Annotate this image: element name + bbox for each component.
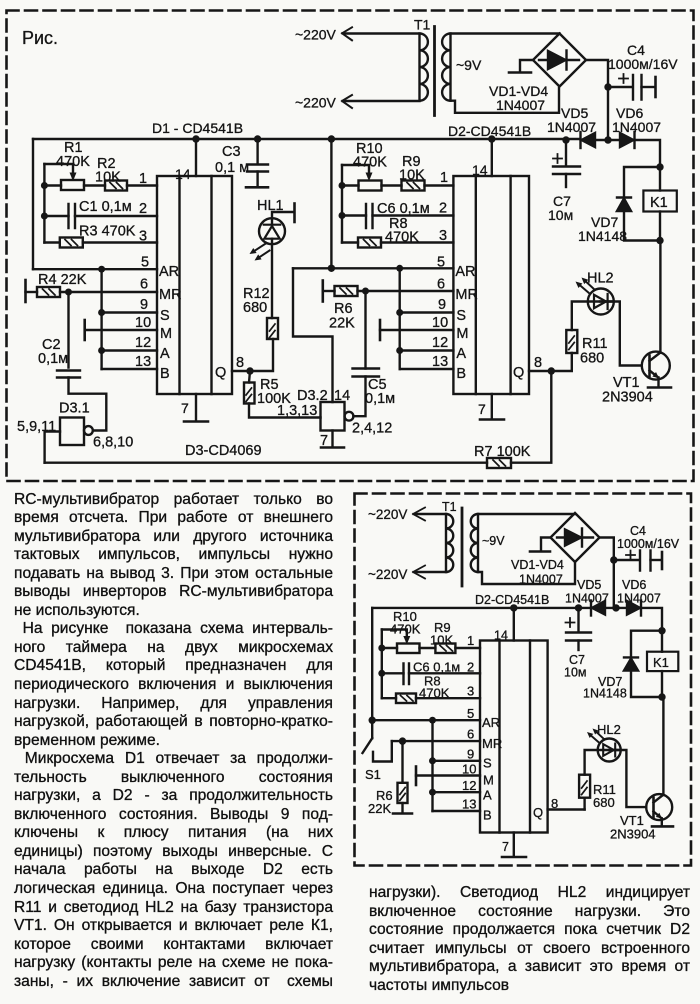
R7 hatch: [493, 460, 506, 466]
sideways ground bar pin10 (fig2): [415, 767, 418, 786]
wire left supply bus: [32, 139, 34, 269]
LED HL2 arrows (fig2): [592, 736, 600, 743]
diode VD6 (fig2): [627, 601, 640, 615]
resistor R9 body (fig2): [435, 644, 455, 654]
svg-text:~9V: ~9V: [456, 57, 482, 73]
node junction C7 (fig2): [575, 604, 582, 611]
svg-text:3: 3: [139, 229, 147, 245]
wire 220V top to primary: [344, 32, 420, 34]
capacitor C7: [553, 167, 580, 175]
wire pin10 M line: [85, 329, 157, 331]
node junction S1 top (fig2): [369, 717, 376, 724]
svg-text:M: M: [483, 773, 494, 788]
wire bus to R10 (fig2): [382, 647, 397, 649]
wire R5 to D3.2 input: [249, 404, 321, 418]
wire C4 to common (fig2): [651, 559, 662, 561]
svg-text:12: 12: [432, 335, 448, 351]
svg-text:A: A: [160, 346, 170, 362]
capacitor C2: [57, 371, 80, 378]
capacitor C5: [353, 369, 380, 377]
wire 220V bottom to primary (fig2): [415, 571, 446, 573]
svg-text:10м: 10м: [564, 666, 587, 680]
wire select bus D2: [399, 268, 401, 369]
wire bridge plus output (fig2): [600, 538, 614, 608]
capacitor C3: [247, 165, 268, 172]
svg-text:0,1м: 0,1м: [38, 351, 68, 367]
node junction R10 left (fig2): [378, 645, 385, 652]
wire D3 supply drop: [330, 139, 332, 268]
svg-text:8: 8: [236, 355, 244, 371]
inverter D3.1 box: [60, 418, 84, 446]
wire R3 to pin3: [83, 241, 157, 243]
sideways ground bar pin10 D1: [83, 320, 86, 340]
wire K1 bottom (fig2): [661, 671, 663, 697]
VT1 emitter (fig2): [654, 812, 662, 827]
node junction R1 left: [41, 182, 48, 189]
ground bar D2: [480, 418, 504, 421]
svg-text:C1 0,1м: C1 0,1м: [79, 199, 132, 215]
wire Q pin8 to R11 (fig2): [548, 808, 585, 810]
R5 hatch: [246, 388, 252, 402]
wire R10 wiper feed: [342, 165, 369, 177]
wire D3.2 output to C5: [353, 377, 365, 417]
LED HL1 diode: [264, 225, 280, 239]
IC D1 inner columns: [180, 176, 212, 394]
wire R6 top (fig2): [401, 741, 403, 783]
node junction C7: [562, 136, 569, 143]
node junction pin12: [98, 347, 105, 354]
svg-text:1N4007: 1N4007: [612, 119, 661, 135]
wire Q to R5: [249, 371, 250, 383]
svg-text:14: 14: [494, 629, 508, 643]
ground bar D1: [184, 420, 208, 423]
wire C6 to pin2 (fig2): [409, 672, 480, 674]
capacitor C4 (fig2): [640, 551, 651, 571]
inverter D3.1 bubble: [84, 426, 93, 435]
resistor R8 body (fig2): [396, 694, 416, 704]
VT1 emitter: [650, 371, 659, 388]
transformer T1 secondary winding (fig2): [471, 514, 478, 572]
svg-text:AR: AR: [455, 264, 475, 280]
bridge rectifier VD1-VD4 diamond: [533, 34, 586, 87]
svg-text:1: 1: [139, 171, 147, 187]
wire K1 bottom: [659, 212, 661, 241]
svg-text:10: 10: [135, 315, 151, 331]
node junction Q D1: [246, 367, 253, 374]
svg-text:Q: Q: [513, 365, 524, 381]
VT1 base bar: [648, 356, 651, 377]
transformer T1 core (fig2): [461, 508, 464, 586]
wire VD7 branch (fig2): [631, 631, 662, 657]
svg-text:7: 7: [502, 840, 509, 854]
svg-text:10K: 10K: [95, 170, 121, 186]
wire pin12 A line (fig2): [433, 791, 481, 793]
wire pin13 B line (fig2): [433, 810, 481, 812]
svg-text:6,8,10: 6,8,10: [93, 435, 133, 451]
resistor R4 body: [37, 287, 60, 297]
resistor R11 body: [566, 330, 577, 353]
wire C7 bottom stub: [565, 174, 567, 187]
svg-text:13: 13: [462, 797, 476, 812]
svg-text:12: 12: [135, 335, 151, 351]
wire Q pin8 out D2: [529, 370, 551, 372]
node junction C4 (fig2): [610, 556, 617, 563]
op-amp D2 IC box: [453, 176, 529, 394]
svg-text:2,4,12: 2,4,12: [352, 421, 392, 437]
potentiometer R10 body (fig2): [397, 644, 420, 654]
wire to C4 (fig2): [614, 559, 639, 561]
wire bus to R1: [44, 184, 61, 186]
wire pin12 A line D2: [400, 349, 454, 351]
node junction Q D2: [548, 367, 555, 374]
ground bar D3.2: [321, 446, 344, 449]
R3 hatch: [65, 240, 78, 246]
wire 220V top to primary (fig2): [415, 513, 446, 515]
main supply rail (fig2): [372, 607, 591, 609]
wire R12 to Q node: [250, 339, 273, 371]
LED HL2 arrows: [580, 286, 589, 294]
svg-text:10: 10: [462, 762, 476, 777]
wiper arrowhead R10 (fig2): [403, 636, 410, 644]
transistor VT1 circle: [642, 352, 670, 380]
svg-text:10K: 10K: [430, 633, 453, 648]
op-amp D2 IC box (fig2): [480, 641, 548, 833]
wire HL1 top to common: [272, 212, 294, 224]
wire secondary bottom to bridge: [451, 88, 560, 113]
svg-text:9: 9: [140, 297, 148, 313]
diode VD5 (fig2): [592, 601, 605, 615]
svg-text:14: 14: [175, 166, 191, 182]
node junction relay bottom: [656, 237, 663, 244]
figure border (fig 1): [7, 11, 694, 482]
diode VD5: [582, 133, 596, 147]
svg-text:B: B: [456, 366, 466, 382]
op-amp D1 IC box: [157, 176, 232, 394]
wire C4 to common: [642, 86, 655, 88]
svg-text:1N4007: 1N4007: [496, 97, 545, 113]
svg-text:AR: AR: [482, 715, 500, 730]
svg-text:3: 3: [439, 228, 447, 244]
R2 hatch: [110, 183, 123, 189]
svg-text:0,1м: 0,1м: [365, 391, 395, 407]
wire relay branch down: [659, 167, 661, 191]
wire pin12 A line: [102, 349, 157, 351]
relay K1 box: [643, 191, 676, 212]
wire R1 wiper feed: [44, 164, 73, 177]
wire bottom feedback line: [45, 462, 487, 464]
resistor R11 body (fig2): [579, 775, 590, 798]
svg-text:~220V: ~220V: [295, 27, 337, 43]
LED HL2 circle: [588, 289, 614, 315]
sideways ground bar pin10 D2: [379, 320, 382, 340]
wire bar to R4: [26, 291, 38, 293]
svg-text:1000м/16V: 1000м/16V: [617, 537, 680, 551]
wire pin14 D1: [195, 139, 197, 176]
wire R8 to pin3 (fig2): [416, 697, 480, 699]
wire pin13 B line: [102, 368, 157, 370]
svg-text:470K: 470K: [385, 230, 419, 246]
svg-text:1N4148: 1N4148: [583, 687, 627, 701]
relay K1 box (fig2): [647, 652, 678, 671]
wire C5 top to R6 junction: [364, 291, 366, 369]
wire C3 top: [256, 139, 258, 164]
svg-text:1N4007: 1N4007: [565, 592, 609, 606]
svg-text:D3.2: D3.2: [297, 388, 328, 404]
svg-text:7: 7: [181, 400, 189, 416]
wire 220V top arrow (fig2): [413, 508, 425, 521]
svg-text:AR: AR: [159, 264, 179, 280]
node junction C5-R6: [362, 288, 369, 295]
wire relay branch (fig2): [661, 631, 663, 652]
wire VD7 bottom: [624, 211, 660, 241]
capacitor C4: [633, 75, 642, 100]
wire C1 to pin2: [75, 215, 157, 217]
svg-text:VD5: VD5: [577, 578, 601, 592]
wire R1 to R2: [84, 184, 105, 186]
R9 hatch: [407, 183, 420, 189]
wire pin9 S line (fig2): [433, 760, 481, 762]
svg-text:680: 680: [243, 300, 267, 316]
node junction pin5 bus: [98, 266, 105, 273]
resistor R9 body: [402, 181, 425, 191]
wire 220V bottom to primary: [344, 100, 420, 102]
wire C7 top (fig2): [577, 608, 579, 632]
R4 hatch: [43, 289, 56, 295]
svg-text:~220V: ~220V: [368, 567, 407, 582]
svg-text:~220V: ~220V: [368, 507, 407, 522]
svg-text:680: 680: [593, 795, 615, 810]
wire R11 to Q node D2: [551, 353, 572, 371]
VT1 emitter arrowhead: [652, 372, 659, 378]
wiper arrowhead R1: [70, 173, 77, 182]
svg-text:6: 6: [467, 727, 474, 742]
node junction relay bottom (fig2): [658, 693, 665, 700]
wire bus corner to R8: [342, 241, 358, 243]
wire pin10 M line (fig2): [416, 774, 480, 776]
wire R11 bottom (fig2): [583, 798, 585, 810]
wire pin5 AR line (fig2): [372, 719, 480, 721]
wire R7 to Q D2: [511, 371, 551, 463]
node junction pin14 rail (fig2): [510, 604, 517, 611]
ground bar VT1 (fig2): [652, 825, 673, 828]
svg-text:D3-CD4069: D3-CD4069: [185, 443, 262, 459]
wire 220V top arrow: [342, 27, 352, 40]
node junction C6 (fig2): [378, 670, 385, 677]
node junction pin12 (fig2): [429, 789, 436, 796]
svg-text:10K: 10K: [399, 168, 425, 184]
wire R9 to pin1 (fig2): [455, 647, 480, 649]
svg-text:S: S: [456, 308, 466, 324]
wire C3 bottom: [256, 172, 258, 187]
node junction R10 left: [339, 182, 346, 189]
svg-text:MR: MR: [159, 287, 182, 303]
svg-text:1,3,13: 1,3,13: [277, 403, 317, 419]
node junction pin5 bus D2: [396, 265, 403, 272]
bridge rectifier VD1-VD4 diamond (fig2): [551, 513, 600, 562]
svg-text:C3: C3: [222, 144, 241, 160]
wire bus corner to R8 (fig2): [382, 697, 396, 699]
node junction pin9 D2: [396, 309, 403, 316]
node junction relay top (fig2): [658, 627, 665, 634]
wire VD7 branch top: [624, 167, 660, 197]
wire zigzag to D3.2 pin14: [293, 268, 333, 402]
svg-text:12: 12: [462, 778, 476, 793]
svg-text:1000м/16V: 1000м/16V: [608, 56, 678, 72]
ground bar D2 (fig2): [502, 856, 526, 859]
R11 hatch (fig2): [582, 781, 587, 795]
wire to C4: [608, 86, 632, 88]
ground bar at bridge (fig2): [530, 550, 550, 553]
wire 220V bottom arrow: [342, 95, 352, 108]
label plus C4 (fig2): [626, 551, 635, 560]
svg-text:13: 13: [135, 354, 151, 370]
wire bus to C1: [44, 215, 68, 217]
sideways ground bar HL1: [293, 204, 296, 223]
wire R2 to pin1: [127, 184, 157, 186]
VT1 collector (fig2): [654, 697, 664, 803]
svg-text:8: 8: [534, 355, 542, 371]
svg-text:9: 9: [467, 747, 474, 762]
wire VD6 to relay rail (fig2): [641, 608, 662, 631]
svg-text:K1: K1: [650, 195, 668, 211]
wire pin7 ground (fig2): [513, 833, 515, 857]
bridge inner diode: [539, 51, 579, 70]
wire HL2 left to R11: [572, 302, 614, 331]
node junction pin14 D2 rail: [488, 135, 495, 142]
wire pin6 MR line (fig2): [392, 740, 480, 742]
wire bus to C6: [342, 214, 366, 216]
resistor R3 body: [60, 238, 83, 248]
label plus C7: [553, 154, 562, 163]
ground bar at bridge: [509, 71, 531, 74]
IC D2 inner columns (fig2): [500, 641, 531, 833]
svg-text:1: 1: [467, 633, 474, 648]
svg-text:C4: C4: [630, 524, 646, 538]
wire pin10 M line D2: [380, 329, 453, 331]
inverter D3.2 bubble: [345, 412, 354, 421]
wire Q pin8 out: [232, 370, 250, 372]
svg-text:680: 680: [580, 351, 604, 367]
resistor R5 body: [244, 383, 255, 404]
wire R4 to pin6: [60, 291, 157, 293]
svg-text:K1: K1: [653, 655, 669, 670]
svg-text:3: 3: [467, 684, 474, 699]
wire C7 bottom stub (fig2): [577, 641, 579, 651]
svg-text:6: 6: [140, 277, 148, 293]
wire VD7 bottom (fig2): [631, 671, 662, 698]
svg-text:Q: Q: [533, 805, 543, 820]
wire pin14 (fig2): [513, 608, 515, 641]
svg-text:Q: Q: [215, 365, 226, 381]
node junction C1 left: [41, 213, 48, 220]
ground bar R6 (fig2): [393, 812, 412, 815]
R9 hatch (fig2): [440, 646, 453, 652]
svg-text:~9V: ~9V: [482, 534, 505, 548]
transformer T1 primary winding: [420, 34, 428, 101]
node junction pin9: [98, 309, 105, 316]
svg-text:M: M: [456, 326, 468, 342]
bridge minus stub (fig2): [541, 538, 551, 551]
figure border (fig 2): [355, 494, 692, 866]
svg-text:5: 5: [141, 255, 149, 271]
LED HL1 circle: [259, 218, 285, 244]
wire bridge plus output: [586, 60, 608, 139]
wire secondary top to bridge (fig2): [478, 513, 575, 515]
wire pin14 D2: [491, 139, 493, 176]
svg-text:10: 10: [432, 315, 448, 331]
wire R6 to pin6 D2: [358, 290, 454, 292]
node junction pin5 bus (fig2): [429, 717, 436, 724]
wire between diodes (fig2): [605, 607, 627, 609]
resistor R8 body: [358, 238, 381, 248]
svg-text:S1: S1: [365, 767, 381, 782]
svg-text:470K: 470K: [56, 154, 90, 170]
svg-text:T1: T1: [414, 17, 431, 33]
capacitor C7 (fig2): [566, 633, 591, 641]
svg-text:6: 6: [437, 277, 445, 293]
svg-text:10м: 10м: [548, 207, 573, 223]
inverter D3.2 box: [321, 402, 345, 431]
node junction R6 top (fig2): [399, 737, 406, 744]
svg-text:2: 2: [139, 201, 147, 217]
wire HL1 to R12: [271, 239, 273, 318]
LED HL1 arrows: [255, 243, 267, 251]
R8 hatch (fig2): [401, 696, 414, 702]
resistor R2 body: [105, 181, 127, 191]
wire bus to R10: [342, 184, 359, 186]
R6 hatch: [340, 288, 353, 294]
node junction C4: [604, 83, 611, 90]
svg-text:R7 100K: R7 100K: [474, 444, 531, 460]
svg-text:Рис.: Рис.: [22, 28, 58, 48]
sideways ground bar at C4: [654, 77, 657, 97]
svg-text:22K: 22K: [329, 316, 355, 332]
wire secondary bottom to bridge (fig2): [478, 563, 575, 584]
wire pin7 D2 to ground: [491, 394, 493, 419]
wire select bus (fig2): [431, 720, 433, 811]
svg-text:14: 14: [472, 162, 488, 178]
svg-text:7: 7: [478, 401, 486, 417]
svg-text:MR: MR: [482, 736, 502, 751]
resistor R12 body: [267, 318, 278, 339]
svg-text:A: A: [483, 788, 492, 803]
wire R10 wiper feed (fig2): [382, 630, 407, 641]
wire R8 to pin3 D2: [381, 241, 453, 243]
svg-text:22K: 22K: [368, 801, 391, 816]
LED HL2 diode (fig2): [603, 744, 615, 757]
svg-text:5: 5: [467, 706, 474, 721]
node junction pin12 D2: [396, 347, 403, 354]
svg-text:VD6: VD6: [622, 578, 646, 592]
wire pin5 AR line D2: [293, 267, 453, 269]
R12 hatch: [270, 324, 276, 338]
resistor R6 body: [335, 286, 358, 296]
svg-text:MR: MR: [455, 287, 478, 303]
wire RC bus (fig2): [381, 630, 383, 699]
wire bus corner to R3: [44, 241, 59, 243]
node junction supply-pin5: [328, 265, 335, 272]
IC D2 inner columns: [476, 176, 511, 394]
svg-text:VD1-VD4: VD1-VD4: [511, 558, 564, 572]
sideways ground bar R4: [24, 280, 27, 302]
svg-text:5: 5: [437, 255, 445, 271]
R6 hatch (fig2): [400, 788, 405, 801]
capacitor C6: [366, 204, 373, 228]
svg-text:1: 1: [440, 170, 448, 186]
wire D3.1 input: [45, 432, 60, 463]
LED HL2 diode: [594, 294, 608, 309]
wire C6 to pin2 D2: [373, 214, 454, 216]
